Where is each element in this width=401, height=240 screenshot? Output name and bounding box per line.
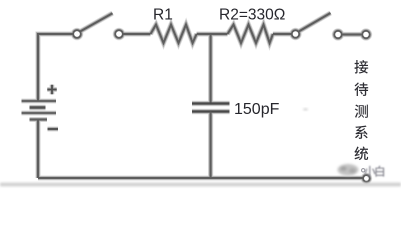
battery BT1 inner short thick plate — [30, 106, 46, 108]
wire top-left from battery rail to switch S1 — [38, 34, 73, 101]
capacitor C1 bottom plate — [192, 110, 230, 112]
wire soft halo layer (jpeg blur imitation) — [22, 13, 370, 182]
capacitor C1 top plate — [192, 102, 230, 104]
switch S1 blade (open, up-right) — [80, 13, 112, 31]
battery plus sign — [47, 85, 56, 94]
wire capacitor to bottom rail — [210, 112, 212, 179]
battery BT1 inner long plate — [22, 112, 57, 114]
watermark text 小白 — [364, 166, 384, 177]
output link left terminal — [334, 31, 341, 38]
switch S2 left terminal — [292, 30, 299, 37]
resistor R1 zigzag — [151, 25, 197, 43]
wire S1 to R1 — [123, 33, 151, 35]
svg-text:150pF: 150pF — [234, 101, 280, 118]
output bottom terminal — [363, 175, 370, 182]
watermark bottom gray band — [0, 183, 401, 186]
label vertical text 接待测系统 (system under test) — [354, 60, 368, 160]
wire R2 to switch S2 — [273, 33, 292, 35]
switch S1 left terminal — [73, 30, 81, 38]
wire junction to capacitor C1 — [210, 34, 212, 103]
switch S1 right terminal — [115, 30, 123, 38]
battery minus sign — [48, 128, 59, 130]
battery BT1 positive long plate — [22, 100, 57, 102]
watermark small mark — [362, 169, 365, 172]
resistor R2 zigzag — [228, 25, 273, 43]
switch S2 blade (open, up-right) — [299, 13, 331, 32]
output link right terminal — [362, 31, 369, 38]
wire battery to bottom rail — [37, 120, 39, 179]
svg-text:R1: R1 — [153, 7, 173, 24]
wire between output terminals — [342, 34, 363, 36]
watermark blurred logo — [338, 164, 359, 176]
battery BT1 negative short plate — [30, 119, 48, 121]
svg-text:R2=330Ω: R2=330Ω — [219, 7, 285, 24]
wire R1 to R2 through junction node — [197, 33, 228, 35]
wire bottom rail — [38, 177, 363, 179]
stray speck — [304, 109, 308, 111]
